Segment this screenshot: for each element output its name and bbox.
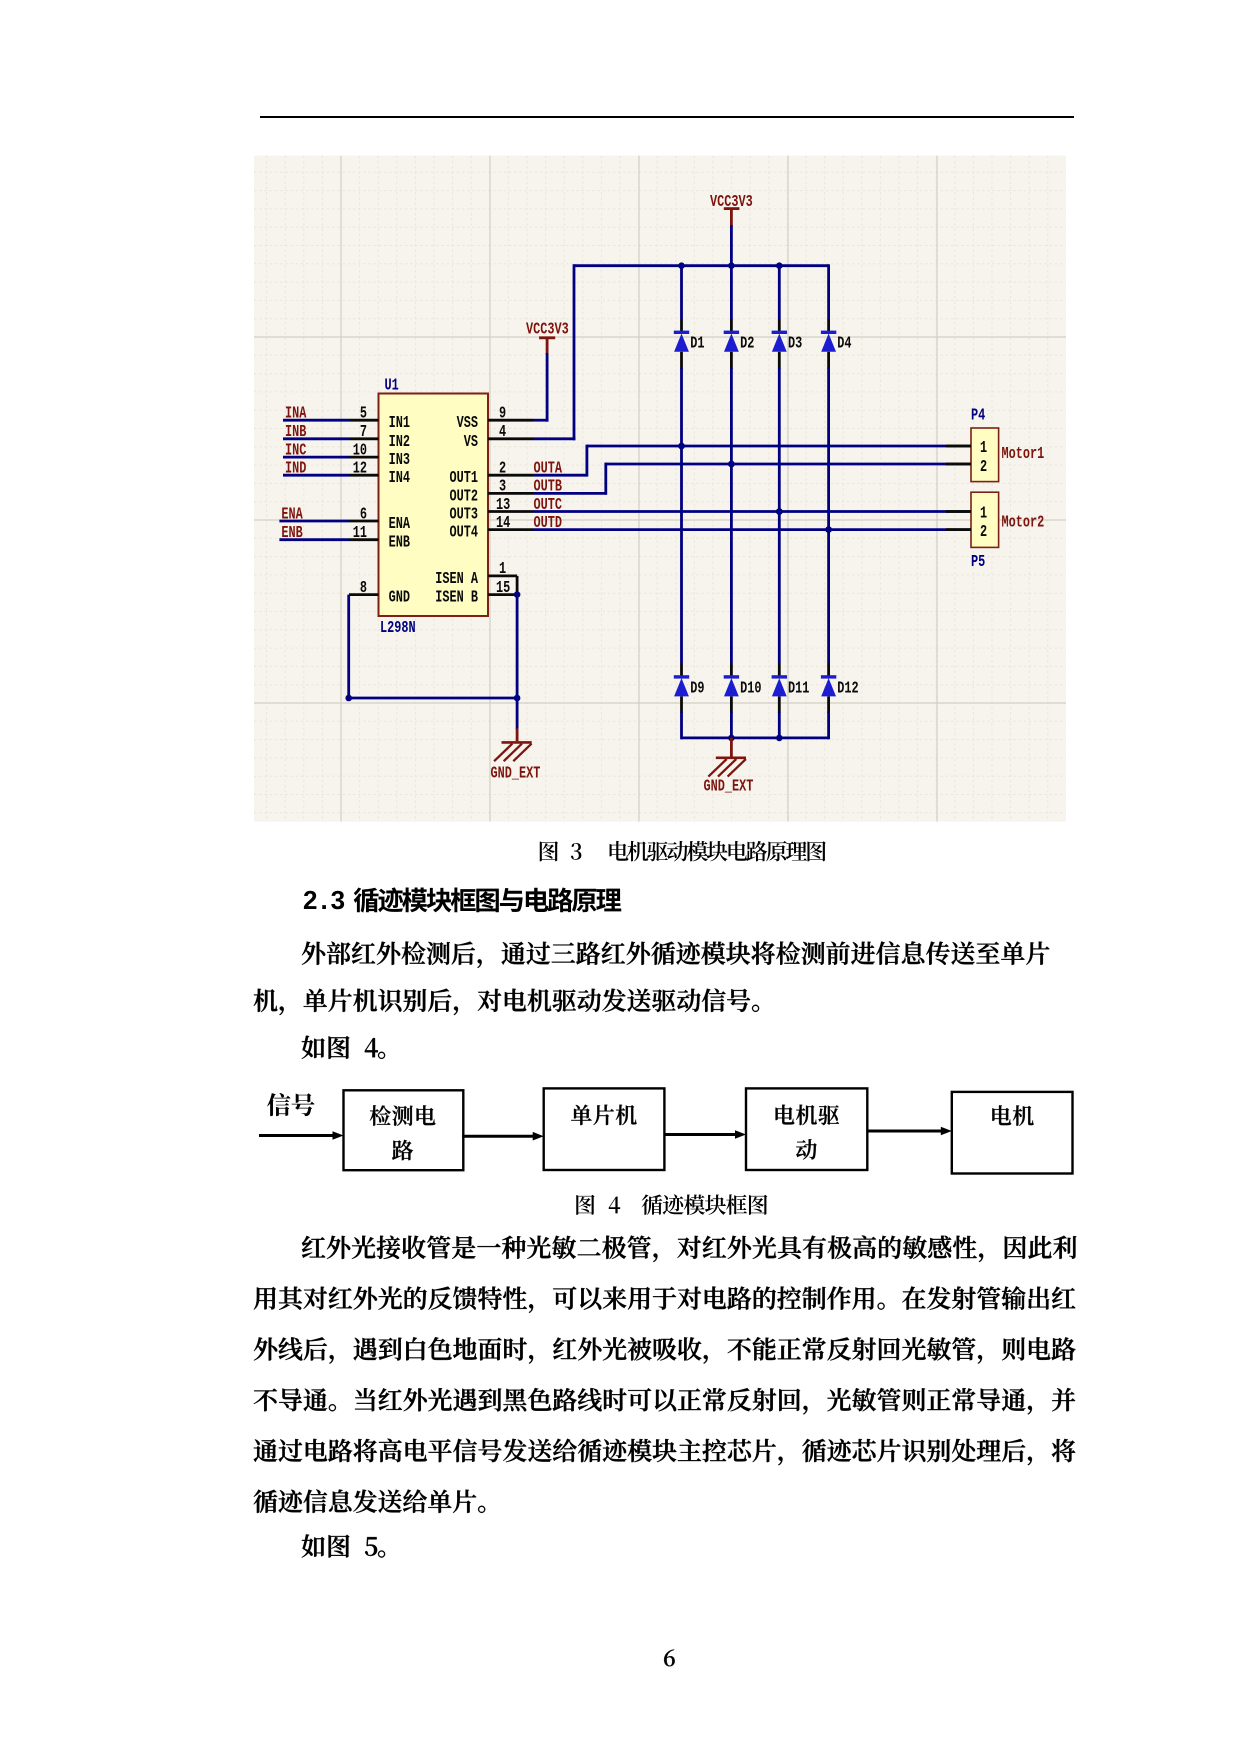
diode D10 bbox=[724, 677, 762, 698]
wire VS pin4 riser to VCC rail bbox=[533, 264, 575, 440]
connector P5 (Motor2) bbox=[946, 492, 1044, 572]
wire + net label ENB bbox=[279, 524, 349, 542]
wire diode column D4/D12 at x=828.6 bbox=[825, 264, 832, 739]
wire + net label IND bbox=[283, 460, 349, 478]
ground GND_EXT (left) bbox=[491, 728, 541, 783]
wire ISEN A to ISEN B junction bbox=[514, 576, 521, 598]
wire GND net (pin8 + ISEN to GND_EXT left) bbox=[345, 595, 520, 730]
heading number 2.3 bbox=[303, 887, 348, 913]
U1 pin 12 (IN4) bbox=[349, 460, 410, 488]
header rule bbox=[260, 116, 1075, 118]
block diagram box: MCU bbox=[544, 1088, 665, 1170]
wire diode column D1/D9 at x=681.5 bbox=[678, 264, 685, 739]
U1 pin 4 (VS) bbox=[464, 423, 533, 451]
U1 pin 15 (ISEN B) bbox=[435, 579, 517, 607]
wire diode column D2/D10 at x=731.4 bbox=[728, 264, 735, 739]
junction dots on VCC rail bbox=[678, 262, 782, 269]
U1 pin 11 (ENB) bbox=[349, 524, 410, 552]
block diagram box: motor driver bbox=[746, 1088, 867, 1170]
block diagram box: detection circuit bbox=[344, 1090, 464, 1170]
IC U1 L298N body bbox=[379, 377, 489, 638]
arrow: MCU to motor driver bbox=[664, 1130, 746, 1139]
U1 pin 7 (IN2) bbox=[349, 423, 410, 451]
arrow: detection to MCU bbox=[462, 1132, 544, 1141]
U1 pin 1 (ISEN A) bbox=[435, 561, 517, 589]
U1 pin 13 (OUT3) bbox=[450, 496, 533, 524]
wire VCC3V3 top drop to rail bbox=[730, 225, 733, 265]
wire VCC3V3 top rail bbox=[574, 264, 829, 267]
wire OUTA (OUT1 to P4 pin1, taps D1) bbox=[533, 443, 971, 479]
wire + net label INA bbox=[283, 405, 349, 423]
wire + net label INB bbox=[283, 423, 349, 441]
wire + net label INC bbox=[283, 442, 349, 460]
arrow: signal input bbox=[259, 1131, 344, 1140]
power symbol VCC3V3 (top) bbox=[710, 193, 753, 226]
wire + net label ENA bbox=[279, 506, 349, 524]
U1 pin 9 (VSS) bbox=[457, 405, 533, 433]
ground GND_EXT (bottom) bbox=[704, 738, 754, 796]
wire diode column D3/D11 at x=779.3 bbox=[776, 264, 783, 739]
U1 pin 8 (GND) bbox=[349, 579, 410, 607]
block diagram box: motor bbox=[952, 1092, 1073, 1174]
U1 pin 6 (ENA) bbox=[349, 506, 410, 534]
diode D11 bbox=[772, 677, 810, 698]
wire VSS pin9 to VCC3V3 bbox=[533, 353, 549, 422]
U1 pin 10 (IN3) bbox=[349, 442, 410, 470]
diode D12 bbox=[821, 677, 859, 698]
wire bottom rail to GND_EXT bbox=[682, 735, 829, 742]
wire OUTB (OUT2 to P4 pin2, taps D2) bbox=[533, 461, 971, 497]
diode D1 bbox=[674, 332, 705, 353]
connector P4 (Motor1) bbox=[946, 407, 1044, 482]
diode D3 bbox=[772, 332, 803, 353]
wire OUTD (OUT4 to P5 pin2, taps D4) bbox=[533, 514, 971, 533]
arrow: motor driver to motor bbox=[867, 1127, 952, 1136]
U1 pin 2 (OUT1) bbox=[450, 460, 533, 488]
diode D4 bbox=[821, 332, 852, 353]
diode D2 bbox=[724, 332, 755, 353]
U1 pin 14 (OUT4) bbox=[450, 514, 533, 542]
U1 pin 5 (IN1) bbox=[349, 405, 410, 433]
U1 pin 3 (OUT2) bbox=[450, 478, 533, 506]
power symbol VCC3V3 (left, to U1 VSS pin 9) bbox=[526, 321, 569, 355]
diode D9 bbox=[674, 677, 705, 698]
wire OUTC (OUT3 to P5 pin1, taps D3) bbox=[533, 496, 971, 515]
